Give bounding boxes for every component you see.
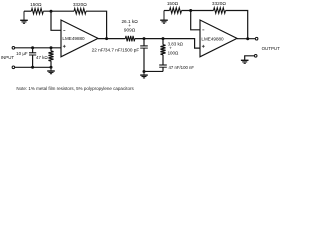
node B: 47k junction [50, 46, 53, 49]
op-amp U2 LME49880 [200, 20, 237, 57]
node: amp1 output [105, 37, 108, 40]
wire: output return to ground [245, 56, 255, 60]
svg-text:3320Ω: 3320Ω [73, 2, 87, 7]
node D [50, 66, 53, 69]
svg-text:LME49880: LME49880 [62, 36, 85, 41]
resistor R6 150 ohm [170, 8, 182, 14]
terminal: INPUT return [12, 66, 15, 69]
svg-text:Note: 1% metal film resistors,: Note: 1% metal film resistors, 5% polypr… [16, 86, 134, 91]
node I: amp2 output [246, 37, 249, 40]
node F: bottom rail junction [143, 70, 146, 73]
wire: input bottom rail [15, 66, 51, 68]
wire: input top rail to non-inverting input [15, 47, 61, 49]
resistor R3 47k (input load) [49, 48, 54, 68]
wire: R2 to output corner [86, 11, 107, 38]
svg-text:22 nF/34.7 nF/1500 pF: 22 nF/34.7 nF/1500 pF [92, 47, 140, 52]
node A: cap junction [31, 46, 34, 49]
svg-text:909Ω: 909Ω [124, 27, 136, 32]
capacitor C3 47nF/100nF [159, 65, 167, 71]
svg-text:INPUT: INPUT [1, 55, 15, 60]
svg-text:150Ω: 150Ω [30, 2, 42, 7]
resistor R1 150 ohm [31, 8, 43, 14]
terminal: INPUT hot [12, 47, 15, 50]
ground (stage 2 feedback) [160, 11, 168, 24]
node C [31, 66, 34, 69]
node G: second shunt [162, 37, 165, 40]
terminal: output return [254, 55, 257, 58]
wire: drop to amp2 inverting input [191, 11, 200, 30]
resistor R2 3320 ohm (feedback) [74, 8, 86, 14]
node E: first shunt [143, 37, 146, 40]
wire: bottom rail [144, 70, 163, 72]
svg-text:47 kΩ: 47 kΩ [36, 55, 48, 60]
ground (RIAA shunt) [140, 71, 148, 77]
wire: ground to R1 [24, 10, 31, 12]
ground (input) [47, 67, 55, 73]
resistor R5 3.83k + 100 [161, 39, 166, 65]
wire: R7 to output corner [226, 11, 248, 39]
terminal: OUTPUT [255, 37, 258, 40]
wire: R6 to inverting node to R7 [182, 10, 214, 12]
resistor R4 26.1k + 909 [125, 36, 134, 42]
svg-text:10 µF: 10 µF [16, 51, 28, 56]
wire: amp1 output [98, 38, 125, 40]
wire: middle rail to amp2 non-inverting [135, 39, 200, 49]
op-amp U1 LME49880 [61, 20, 98, 57]
ground (stage 1 feedback, left) [20, 11, 28, 23]
capacitor C2 22nF/34.7nF/1500pF [140, 39, 148, 72]
svg-text:100Ω: 100Ω [168, 50, 179, 55]
svg-text:OUTPUT: OUTPUT [262, 46, 280, 51]
svg-text:LME49880: LME49880 [201, 37, 224, 42]
wire: R1 to inverting node to R2 [43, 10, 74, 12]
ground (output) [241, 60, 249, 63]
wire: drop to inverting input [51, 11, 61, 30]
capacitor C1 10uF [29, 48, 36, 68]
svg-text:3320Ω: 3320Ω [212, 1, 226, 6]
node H: amp2 inverting junction [189, 9, 192, 12]
wire: amp2 output [237, 38, 255, 40]
resistor R7 3320 ohm (feedback) [214, 8, 226, 14]
wire: ground to R6 [164, 10, 170, 12]
svg-text:47 nF/100 nF: 47 nF/100 nF [169, 65, 195, 70]
svg-text:150Ω: 150Ω [167, 1, 179, 6]
node: amp1 inverting junction [50, 10, 53, 13]
